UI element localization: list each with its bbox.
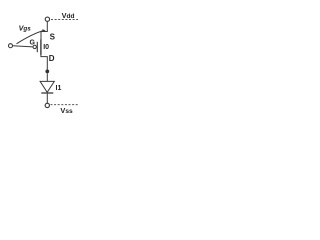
node Vss terminal <box>45 103 49 107</box>
transistor Q1 gate bar <box>36 42 38 52</box>
wire diode to Vss <box>46 94 48 104</box>
diode D1 triangle <box>40 81 54 92</box>
wire gate lead <box>13 46 33 47</box>
wire junction to diode <box>46 73 48 81</box>
svg-text:I0: I0 <box>43 44 49 51</box>
wire Vdd dashed rail <box>51 18 78 20</box>
diode D1 cathode bar <box>41 92 53 94</box>
transistor Q1 gate bubble <box>33 45 36 48</box>
node gate terminal <box>9 44 13 48</box>
svg-text:I1: I1 <box>56 85 62 92</box>
wire Vgs arrow arc <box>17 30 45 43</box>
svg-text:Vss: Vss <box>60 106 73 115</box>
wire drain lead <box>41 55 47 71</box>
transistor Q1 channel <box>40 39 42 55</box>
wire source to Vdd <box>41 21 47 39</box>
node Vdd terminal <box>45 17 49 21</box>
svg-text:Vgs: Vgs <box>19 24 32 33</box>
svg-text:D: D <box>49 54 55 63</box>
svg-text:S: S <box>50 32 56 41</box>
svg-text:G: G <box>30 39 36 46</box>
node junction dot <box>45 70 49 74</box>
wire Vss dashed rail <box>51 104 79 106</box>
svg-text:Vdd: Vdd <box>62 11 75 20</box>
wire Vgs arrowhead <box>42 29 45 32</box>
